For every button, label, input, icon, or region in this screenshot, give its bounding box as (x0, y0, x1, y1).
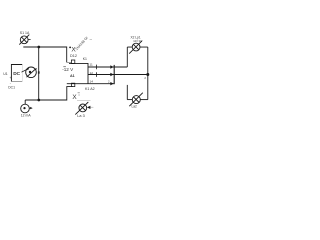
svg-text:K1 A2: K1 A2 (85, 87, 95, 91)
svg-text:X2 Lp1: X2 Lp1 (131, 35, 141, 39)
svg-text:DC: DC (13, 71, 20, 77)
svg-text:12 mA: 12 mA (21, 114, 32, 118)
svg-text:La2: La2 (132, 105, 138, 109)
svg-text:+: + (10, 76, 12, 80)
svg-text:-: - (10, 81, 11, 85)
svg-text:14: 14 (90, 80, 94, 84)
svg-text:K1: K1 (83, 57, 87, 61)
svg-text:S1 1A: S1 1A (20, 31, 30, 35)
svg-text:DC1: DC1 (8, 86, 15, 90)
svg-text:12V 3W: 12V 3W (133, 39, 143, 43)
svg-text:A1: A1 (70, 74, 75, 78)
svg-text:U1: U1 (3, 72, 8, 76)
svg-text:11: 11 (90, 63, 93, 67)
svg-text:X: X (72, 94, 77, 101)
svg-text:12: 12 (90, 71, 94, 75)
svg-text:La 3: La 3 (77, 114, 84, 118)
svg-text:D12: D12 (70, 54, 77, 58)
svg-text:-12 V: -12 V (62, 67, 74, 72)
